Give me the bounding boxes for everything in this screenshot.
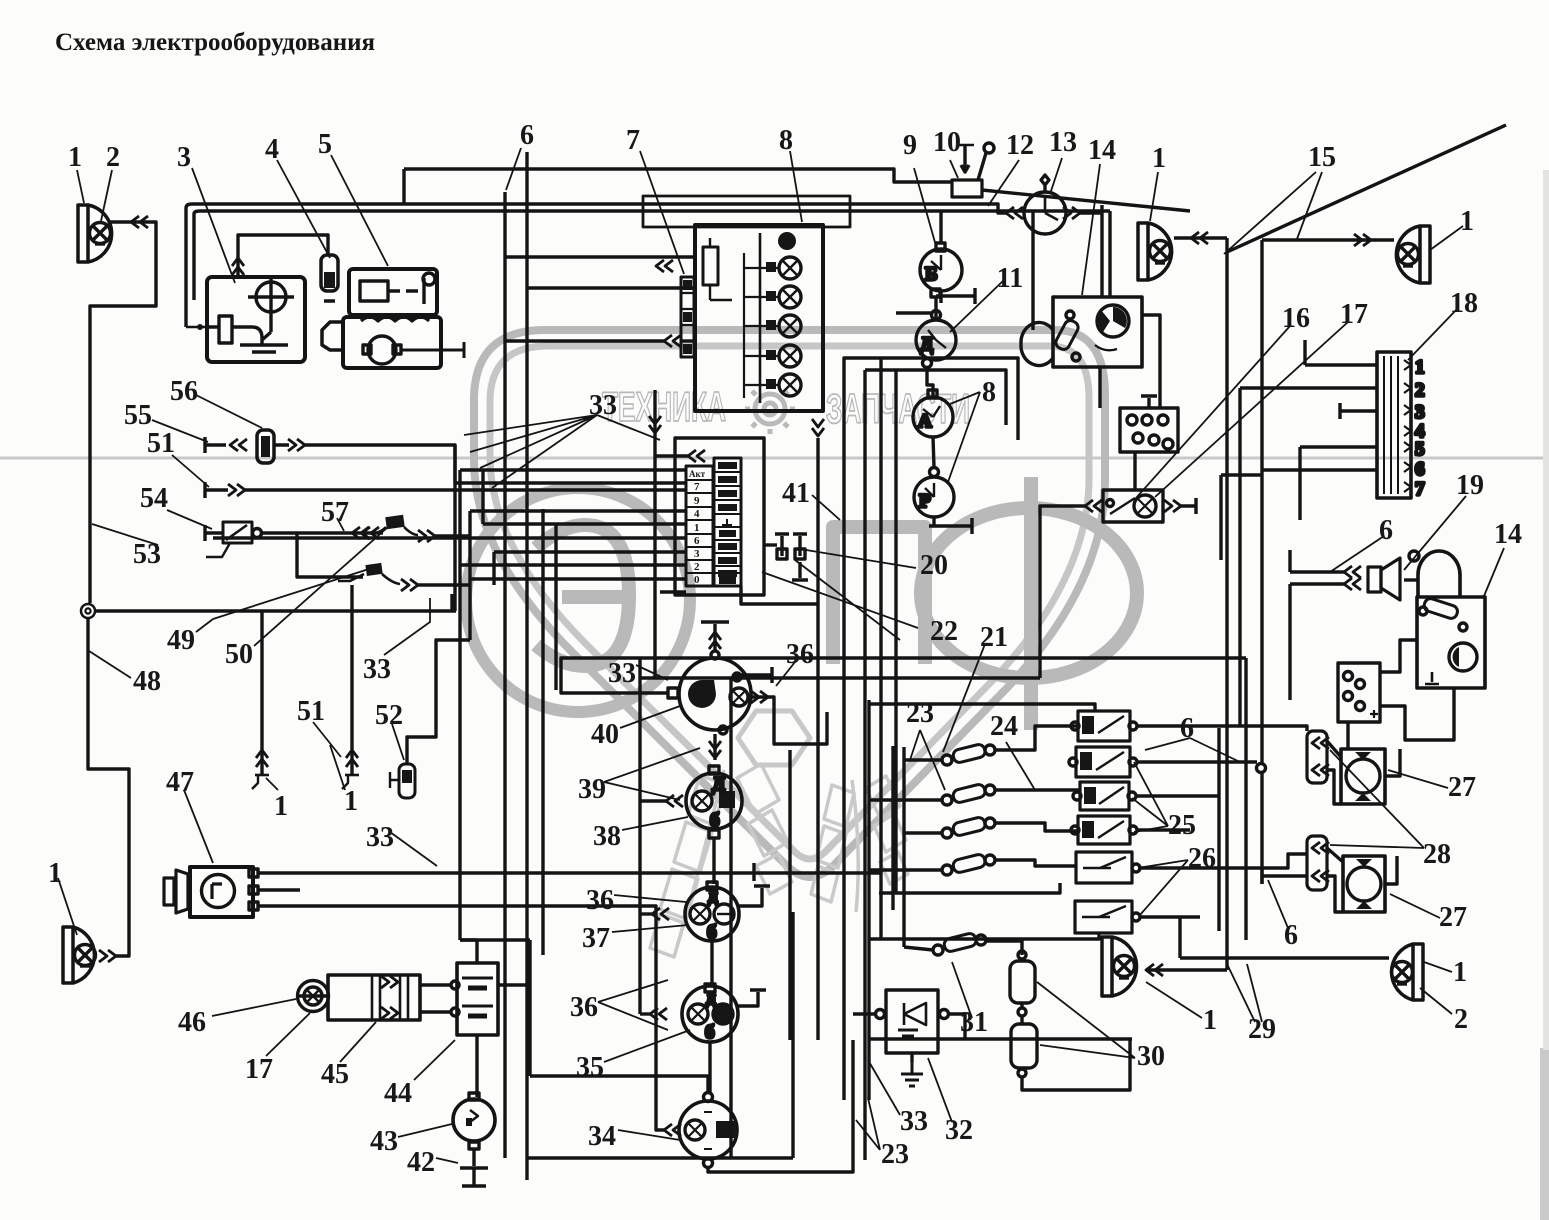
label 9 leader	[914, 168, 936, 246]
svg-text:д: д	[708, 886, 718, 907]
label 33 top leaders	[464, 415, 660, 488]
label 40 leader	[620, 706, 680, 728]
switch output wires	[1136, 726, 1307, 917]
headlamp 1 (top right, facing right)	[1138, 223, 1172, 280]
relay block below 14	[1120, 396, 1178, 452]
svg-text:1: 1	[1415, 357, 1425, 378]
wire cluster bottom right jog	[741, 586, 818, 604]
label 16 leader long	[1136, 326, 1290, 498]
generator below 5	[322, 317, 464, 368]
arrow into cluster top	[688, 450, 705, 462]
dash frame vertical x818 with down arrow	[816, 438, 819, 1040]
svg-text:6: 6	[1379, 515, 1393, 546]
switch 51 terminal left	[205, 482, 228, 498]
label 26 leaders	[1138, 860, 1188, 915]
wire vertical x1219	[1217, 728, 1220, 931]
wire fusebox-left arrow line extension	[505, 339, 664, 342]
wire gauge9 to top bus	[939, 211, 942, 243]
svg-text:Акт: Акт	[689, 469, 706, 479]
svg-text:Схема электрооборудования: Схема электрооборудования	[55, 29, 375, 56]
fuse 31	[933, 932, 986, 955]
fuse 56	[257, 430, 274, 463]
label 1 leader BR	[1424, 962, 1452, 972]
control lamp 37	[685, 882, 739, 943]
label 1 leader BC	[1146, 982, 1202, 1018]
watermark shield outer border	[474, 330, 1105, 877]
label 6 leader (right)	[1330, 536, 1384, 572]
watermark horizontal rule	[0, 457, 1543, 460]
svg-text:1: 1	[1453, 957, 1467, 988]
wire 51 long to cluster	[245, 488, 686, 491]
control lamp 35	[682, 984, 738, 1043]
arrow on 51 wire	[228, 484, 245, 496]
svg-text:7: 7	[626, 125, 640, 156]
wire gauge 8a to 8b	[933, 437, 934, 467]
gauge 11	[916, 311, 956, 368]
wire y873 T-bar	[754, 871, 881, 874]
label 14 leader	[1082, 164, 1100, 295]
svg-text:1: 1	[68, 142, 82, 173]
arrows into connector 7	[656, 260, 673, 272]
label 52 leader	[392, 724, 404, 760]
connector arrow on BL lamp wire	[99, 950, 116, 962]
horizontal y678	[640, 676, 1040, 679]
label 51 leader mid	[313, 722, 341, 757]
fuse left stubs	[869, 760, 942, 870]
top bus line C	[194, 211, 1110, 214]
long horizontal y658	[640, 656, 1246, 659]
svg-text:6: 6	[1284, 920, 1298, 951]
svg-text:33: 33	[363, 654, 391, 685]
svg-text:50: 50	[225, 639, 253, 670]
wire gauge 8b bottom T	[929, 517, 972, 534]
wire 18 left riser	[1240, 340, 1305, 726]
svg-text:17: 17	[1340, 299, 1368, 330]
label 21 leader	[943, 644, 985, 752]
fuse 23d	[942, 853, 995, 875]
svg-text:17: 17	[245, 1054, 273, 1085]
label 38 leader	[622, 817, 688, 830]
flasher right T	[1181, 498, 1196, 514]
wire gauge11 left stub	[896, 311, 931, 314]
svg-text:46: 46	[178, 1007, 206, 1038]
svg-text:3: 3	[694, 548, 700, 560]
wires relay to ignition	[1380, 640, 1454, 740]
svg-text:47: 47	[166, 767, 194, 798]
label 45 leader	[340, 1022, 376, 1062]
svg-text:27: 27	[1439, 902, 1467, 933]
horizontal y939	[869, 933, 1099, 939]
connector 1a with arrows up	[252, 745, 269, 789]
label 18 leader	[1408, 308, 1458, 360]
label 33 leader (mid left)	[390, 832, 437, 866]
wire 40 right with arrow and T	[735, 667, 772, 683]
connector 28a	[1307, 731, 1329, 783]
wire mid vertical x896	[894, 370, 897, 893]
svg-text:1: 1	[1460, 206, 1474, 237]
svg-text:Д: Д	[712, 774, 725, 795]
svg-text:30: 30	[1137, 1041, 1165, 1072]
lamp 46	[298, 981, 329, 1012]
svg-text:51: 51	[297, 696, 325, 727]
wire connector 1b up	[350, 585, 353, 745]
motor 27b	[1343, 856, 1385, 912]
arrow into lamp 35	[650, 1008, 667, 1020]
label 33 leader (x377)	[384, 598, 430, 655]
right vertical bus x1262	[1260, 240, 1263, 884]
label 6 leader top	[506, 148, 521, 190]
label 17 leader long	[1155, 322, 1348, 497]
label 23 leaders bottom middle	[856, 1098, 880, 1150]
wire bundle vertical x556	[554, 524, 557, 690]
svg-text:29: 29	[1248, 1014, 1276, 1045]
svg-text:4: 4	[694, 508, 700, 520]
label 55 leader	[152, 420, 208, 442]
label 28 leaders	[1330, 750, 1424, 848]
svg-text:5: 5	[1415, 439, 1425, 460]
label 1 leader	[77, 170, 84, 203]
svg-text:д: д	[706, 988, 716, 1009]
label 46 leader	[212, 999, 296, 1016]
svg-text:ЗАПЧАСТИ: ЗАПЧАСТИ	[826, 385, 970, 432]
wire junction down to BL lamp	[88, 618, 129, 956]
wires starter to battery	[420, 985, 452, 1012]
long diagonal wire top right	[1227, 125, 1506, 252]
wire TR-R lamp to bus	[1262, 238, 1394, 241]
watermark wheat hexagon	[738, 711, 810, 765]
wire 47 terminal 2 short	[258, 888, 300, 891]
svg-text:А: А	[918, 411, 932, 432]
label 57 leader	[337, 518, 344, 531]
fuse box 10	[952, 143, 994, 197]
label 3 leader	[192, 168, 235, 283]
svg-text:1: 1	[1203, 1005, 1217, 1036]
svg-text:48: 48	[133, 666, 161, 697]
junction on switch wire	[1257, 764, 1266, 773]
label 53 leader	[92, 524, 158, 545]
horizontal y893	[879, 883, 1060, 893]
wire vertical x790	[788, 750, 791, 1040]
fuse 23a	[942, 743, 995, 765]
svg-text:1: 1	[344, 786, 358, 817]
label 10 leader	[950, 160, 958, 178]
svg-text:1: 1	[694, 522, 700, 534]
svg-text:3: 3	[177, 142, 191, 173]
T terminal left of 28b	[1262, 868, 1307, 884]
dash frame vertical x844	[842, 368, 845, 1100]
label 25 leaders	[1132, 762, 1168, 832]
label 19 leader	[1404, 496, 1466, 570]
switch 55 terminal	[205, 437, 226, 453]
svg-text:14: 14	[1494, 519, 1522, 550]
wire vertical x731	[729, 678, 732, 1158]
wires motor 27b	[1327, 848, 1397, 912]
svg-text:7: 7	[1415, 479, 1425, 500]
wire fusebox bottom vertical long	[653, 455, 656, 678]
arrow into BC lamp	[1146, 964, 1163, 976]
relay-regulator 5	[349, 269, 437, 315]
switch 26a	[1076, 852, 1140, 883]
label 30 leaders	[1037, 982, 1135, 1058]
svg-text:6: 6	[520, 120, 534, 151]
svg-text:36: 36	[570, 992, 598, 1023]
gauge 9	[920, 243, 962, 297]
arrow into lamp 34	[664, 1124, 681, 1136]
horn 19	[1368, 558, 1400, 600]
arrow into lamp 37	[652, 908, 669, 920]
svg-text:1: 1	[48, 858, 62, 889]
watermark gear	[745, 384, 795, 434]
scan artifact right edge	[1540, 1048, 1549, 1220]
svg-text:34: 34	[588, 1121, 616, 1152]
relay 43	[453, 1093, 495, 1149]
starter 45	[328, 975, 420, 1020]
label 36 leaders bottom	[598, 980, 668, 1030]
cluster feed wires from bundle	[213, 470, 686, 579]
svg-text:6: 6	[1415, 459, 1425, 480]
instrument cluster outer box 41	[675, 438, 764, 595]
svg-text:28: 28	[1423, 839, 1451, 870]
watermark letter E circle	[466, 488, 690, 712]
watermark letter F	[921, 477, 1137, 730]
wire 50 to bundle	[418, 583, 470, 586]
heater box 14	[1021, 297, 1142, 367]
wire headlamp TL to junction	[90, 222, 156, 603]
wires connecting gauges column	[927, 291, 941, 397]
wire 57 to bundle	[435, 534, 470, 537]
wire fuse31	[904, 941, 1022, 955]
svg-text:55: 55	[124, 400, 152, 431]
svg-text:45: 45	[321, 1059, 349, 1090]
svg-text:37: 37	[582, 923, 610, 954]
wire y704 feed to switchbank	[869, 704, 1095, 711]
switch 25a	[1071, 711, 1137, 741]
watermark group	[0, 330, 1543, 957]
label 1 leader TR-L	[1150, 172, 1158, 221]
gauge 8b	[914, 468, 954, 518]
svg-text:12: 12	[1006, 130, 1034, 161]
riser x404	[402, 169, 405, 204]
svg-text:9: 9	[694, 495, 700, 507]
frame bottom A	[527, 912, 793, 1158]
svg-text:1: 1	[274, 791, 288, 822]
label 50 leader	[254, 527, 388, 646]
svg-text:2: 2	[1454, 1004, 1468, 1035]
wire to lamp37	[640, 912, 652, 915]
connector 28b	[1307, 836, 1329, 890]
label 33 leader mid	[636, 665, 668, 680]
wires into fusebox left	[505, 257, 695, 288]
label 14 leader (bottom right)	[1484, 548, 1504, 596]
label 37 leader	[612, 925, 688, 932]
svg-text:36: 36	[586, 885, 614, 916]
junction 53 node	[81, 604, 95, 618]
ignition-light switch 40	[668, 622, 751, 760]
switch 25d	[1071, 816, 1137, 844]
label 56 leader	[196, 395, 262, 428]
gauge 13	[1024, 175, 1066, 234]
svg-text:51: 51	[147, 428, 175, 459]
resistor 30b	[1011, 1024, 1037, 1068]
right verticals	[869, 700, 904, 1100]
wire ignition bottom left down	[1346, 722, 1349, 749]
headlamp 1 (bottom center)	[1102, 937, 1137, 996]
long vertical bus x505	[503, 192, 506, 1158]
svg-text:26: 26	[1188, 843, 1216, 874]
label 24 leader	[1006, 742, 1035, 790]
wire lamp38 bottom to lamp37 top	[712, 838, 715, 884]
svg-text:39: 39	[578, 774, 606, 805]
label 6 leader (lower right)	[1268, 880, 1288, 928]
svg-text:35: 35	[576, 1052, 604, 1083]
diagonal wire to lower right	[795, 560, 900, 640]
cluster connector left column	[686, 466, 713, 586]
label 36 leader top	[776, 662, 795, 686]
label 2 leader	[101, 170, 112, 221]
label 5 leader	[331, 155, 388, 266]
svg-text:6: 6	[1180, 713, 1194, 744]
wire lamp35 right T	[738, 990, 766, 1006]
svg-text:10: 10	[933, 127, 961, 158]
switch 26b	[1075, 901, 1140, 933]
wire lamp37 bottom down	[710, 941, 713, 986]
connector strip 7	[681, 277, 694, 357]
flasher relay (16,17)	[1103, 490, 1163, 522]
label 2 leader BR	[1420, 988, 1452, 1014]
wire from relay 32 right	[949, 1014, 965, 1039]
resistor 30a	[1010, 961, 1035, 1003]
arrows before 57	[352, 527, 369, 539]
label 23 leaders	[910, 730, 945, 790]
connector 18 pin numbers	[1415, 357, 1425, 500]
svg-text:5: 5	[318, 129, 332, 160]
wire mid vertical x881	[879, 358, 882, 939]
svg-text:19: 19	[1456, 470, 1484, 501]
wire flasher left	[1040, 506, 1085, 678]
wire lamp37 right T	[739, 886, 770, 906]
svg-text:36: 36	[786, 639, 814, 670]
panel lamp 34	[679, 1093, 737, 1168]
fuse 23b	[942, 783, 995, 805]
svg-text:2: 2	[1415, 380, 1425, 401]
fuse 4	[321, 255, 338, 301]
label 1 leader TR-R	[1430, 226, 1463, 250]
svg-text:41: 41	[782, 478, 810, 509]
svg-text:44: 44	[384, 1078, 412, 1109]
connector arrow on TL lamp wire	[131, 216, 148, 228]
svg-text:24: 24	[990, 711, 1018, 742]
wires to horn	[1290, 550, 1344, 700]
watermark wheat ear right	[811, 776, 908, 912]
label 8 leader top	[790, 151, 802, 222]
svg-text:21: 21	[980, 622, 1008, 653]
watermark letter E	[536, 525, 629, 666]
svg-text:2: 2	[106, 142, 120, 173]
wire BC lamp to bus	[1146, 968, 1227, 971]
wire bundle vertical x543	[541, 509, 544, 955]
arrows on 56 wire	[230, 439, 247, 451]
watermark wheat ear left	[650, 764, 792, 957]
horizontal y1039	[869, 1037, 1132, 1040]
label 1 leader (conn 1b)	[330, 745, 345, 790]
svg-text:42: 42	[407, 1147, 435, 1178]
ground 42	[460, 1149, 488, 1186]
relay block bottom right	[1338, 663, 1380, 722]
svg-text:33: 33	[589, 390, 617, 421]
wire 56 to bundle	[274, 445, 455, 611]
label 11 leader	[950, 280, 1004, 332]
dash frame vertical x865	[863, 370, 866, 1160]
label 12 leader	[988, 160, 1019, 206]
vertical feed x640	[638, 658, 641, 1014]
svg-text:13: 13	[1049, 127, 1077, 158]
cable band rectangle	[643, 196, 850, 227]
wire fuse 52 up	[407, 640, 470, 764]
svg-text:33: 33	[366, 822, 394, 853]
connector 1b with arrows up	[342, 745, 359, 789]
label 22 leader	[762, 572, 918, 628]
label 13 leader	[1050, 158, 1062, 194]
svg-text:38: 38	[593, 821, 621, 852]
svg-text:0: 0	[694, 574, 700, 586]
label 42 leader	[436, 1158, 458, 1163]
arrows at flasher	[1085, 500, 1102, 512]
fuse 23c	[942, 816, 995, 838]
wire cluster to key symbol	[764, 543, 777, 546]
wire lamp46 to starter	[298, 994, 328, 997]
label 49 leaders	[196, 568, 372, 632]
long vertical bus x527	[525, 152, 528, 1180]
svg-text:8: 8	[982, 377, 996, 408]
svg-text:20: 20	[920, 550, 948, 581]
resistor terminals	[1018, 951, 1026, 959]
node at regulator left	[197, 324, 203, 330]
wire ignition to horn riser	[1404, 578, 1419, 581]
svg-text:49: 49	[167, 625, 195, 656]
switch 25c	[1073, 782, 1136, 810]
svg-text:53: 53	[133, 539, 161, 570]
wire lamp34 bottom to right	[708, 1040, 853, 1172]
label 48 leader	[89, 651, 131, 678]
svg-text:33: 33	[900, 1106, 928, 1137]
label 1 leader (conn 1a)	[266, 778, 278, 790]
wire bus C drop to heater 14	[1108, 211, 1111, 297]
horizontal y358	[844, 358, 1018, 440]
top bus line A	[404, 169, 952, 182]
arrow after 57	[418, 530, 435, 542]
wire to lamp35	[640, 1012, 650, 1015]
svg-text:54: 54	[140, 483, 168, 514]
wire bus to heater dome	[1031, 211, 1034, 330]
fuse 52	[390, 764, 415, 798]
wire fusebox lower-left arrow line	[680, 339, 695, 342]
wire BR lamp left	[1180, 956, 1389, 959]
label 47 leader	[184, 790, 213, 863]
cluster connector right column	[714, 458, 741, 586]
fuse-lamp box 8	[695, 225, 823, 411]
svg-text:18: 18	[1450, 288, 1478, 319]
arrows around gauge 13	[1006, 207, 1023, 219]
label 27 leader top	[1388, 770, 1448, 788]
label 4 leader	[277, 160, 330, 258]
svg-text:52: 52	[375, 700, 403, 731]
horizontal y370	[865, 370, 1006, 425]
wire relay block to flasher	[1133, 452, 1136, 490]
wire cluster top arrow feed	[655, 454, 688, 457]
svg-text:9: 9	[903, 130, 917, 161]
label 1 leader (bottom left)	[58, 878, 77, 935]
wires into connector 18	[1240, 365, 1377, 470]
